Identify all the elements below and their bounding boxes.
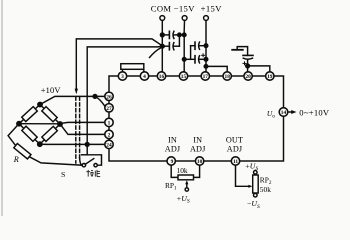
svg-text:4: 4 bbox=[143, 74, 146, 80]
pin 10 bbox=[195, 157, 203, 165]
pin 20 bbox=[244, 72, 252, 80]
pin 15 bbox=[179, 72, 187, 80]
pin 1 bbox=[105, 118, 113, 126]
svg-text:11: 11 bbox=[233, 159, 238, 165]
strain gauge body bottom-left bbox=[22, 126, 37, 141]
pin 14 bbox=[279, 108, 288, 117]
pin 26 bbox=[105, 92, 113, 100]
wire C5 top to ground bbox=[237, 47, 247, 56]
svg-text:COM: COM bbox=[151, 4, 172, 14]
capacitor C1 (COM to -15V, upper) bbox=[162, 34, 169, 36]
output arrow bbox=[291, 110, 296, 114]
wire C2 riser to C1 net bbox=[178, 35, 180, 46]
potentiometer RP2 body bbox=[253, 175, 259, 193]
bridge top node to excitation wire bbox=[40, 96, 105, 104]
ground COM bar bbox=[232, 49, 243, 51]
polarity + of C5 bbox=[243, 62, 246, 65]
svg-text:2: 2 bbox=[108, 132, 111, 138]
resistor R body bbox=[14, 143, 31, 158]
pin 2 bbox=[105, 130, 113, 138]
switch S right contact bbox=[94, 164, 97, 167]
RP1 wiper arrow bbox=[186, 183, 188, 188]
capacitor C5 (output filter at pins 20/19) bbox=[243, 54, 253, 56]
pins bbox=[105, 72, 288, 165]
potentiometer RP1 leads from pins 9 and 10 bbox=[171, 165, 178, 177]
pin 17 bbox=[201, 72, 209, 80]
resistor RG between pins 3 and 4 bbox=[122, 69, 124, 72]
svg-text:IN: IN bbox=[168, 136, 177, 145]
pin 19 bbox=[266, 72, 274, 80]
RP2 bottom terminal bbox=[254, 193, 258, 197]
capacitor C3 (-15V to +15V, upper) bbox=[191, 45, 195, 47]
svg-text:27: 27 bbox=[106, 106, 112, 112]
RP2 top terminal bbox=[254, 171, 258, 175]
bridge bottom wire to pin 24 bbox=[40, 143, 105, 145]
terminal -15V bbox=[182, 16, 187, 21]
RP2 wiper arrow head bbox=[248, 185, 252, 188]
svg-text:9: 9 bbox=[171, 159, 174, 165]
bridge arm bottom-right bbox=[40, 124, 60, 144]
junction dots on COM / -15V nets bbox=[160, 33, 164, 37]
shield outer wire to COM node bbox=[76, 39, 162, 89]
node bottom bbox=[38, 142, 42, 146]
polarity + of C4 bbox=[202, 54, 205, 57]
wire pin 14 output bbox=[288, 111, 292, 113]
pin 18 bbox=[223, 72, 231, 80]
svg-text:+15V: +15V bbox=[201, 4, 223, 14]
strain gauge body top-right bbox=[42, 107, 57, 122]
svg-text:26: 26 bbox=[106, 94, 112, 100]
svg-text:10k: 10k bbox=[177, 166, 188, 175]
pin 24 bbox=[105, 140, 113, 148]
wire -15V vertical to pin 15 bbox=[184, 20, 185, 71]
capacitor C2 (COM to -15V, lower) bbox=[162, 45, 169, 47]
wire +15V to pin 18 loop bbox=[206, 66, 227, 71]
svg-text:−15V: −15V bbox=[174, 4, 196, 14]
svg-text:14: 14 bbox=[281, 110, 287, 116]
svg-text:ADJ: ADJ bbox=[165, 145, 181, 154]
shield dashed line 1 bbox=[75, 97, 77, 163]
label calibration (CJK 校准) drawn strokes bbox=[86, 170, 100, 177]
svg-text:19: 19 bbox=[267, 74, 273, 80]
wire left node to resistor R bbox=[8, 124, 19, 146]
svg-text:15: 15 bbox=[181, 74, 187, 80]
svg-text:20: 20 bbox=[245, 74, 251, 80]
capacitor C4 (-15V to +15V, lower) bbox=[184, 58, 195, 60]
bridge arm top-right bbox=[40, 105, 60, 125]
COM return wire from pin24 net bbox=[87, 46, 162, 144]
wire pin24 net to switch right terminal bbox=[87, 144, 101, 165]
svg-text:50k: 50k bbox=[260, 185, 271, 194]
svg-text:17: 17 bbox=[203, 74, 209, 80]
svg-text:24: 24 bbox=[106, 142, 112, 148]
shield hook to switch bbox=[80, 158, 83, 166]
strain gauge body bottom-right bbox=[42, 126, 58, 141]
bridge arm bottom-left bbox=[19, 124, 40, 145]
pin 11 bbox=[231, 157, 239, 165]
bridge output wire to pin 1 bbox=[19, 122, 105, 123]
junction dot on excitation wire bbox=[93, 95, 97, 99]
node right bbox=[58, 122, 62, 126]
svg-text:18: 18 bbox=[225, 74, 231, 80]
pin 16 bbox=[157, 72, 165, 80]
node top bbox=[38, 102, 42, 106]
terminal COM bbox=[160, 16, 165, 21]
svg-text:S: S bbox=[61, 170, 65, 179]
bridge arm top-left bbox=[19, 105, 40, 124]
wire R to switch bbox=[29, 157, 82, 165]
labels IN ADJ / IN ADJ / OUT ADJ bbox=[165, 136, 243, 154]
wire COM vertical to pin 16 bbox=[161, 20, 164, 71]
wire C3 left drop bbox=[190, 46, 192, 60]
wire pin 11 to RP2 wiper bbox=[236, 165, 250, 186]
svg-text:1: 1 bbox=[108, 120, 111, 126]
switch S left contact bbox=[82, 164, 85, 167]
shield dashed line 2 bbox=[79, 97, 81, 158]
switch S lever bbox=[85, 159, 94, 165]
pin 4 bbox=[140, 72, 148, 80]
wire stub left of drop bbox=[82, 154, 88, 156]
pin 9 bbox=[167, 157, 175, 165]
wire to pin 27 bbox=[95, 96, 105, 106]
svg-text:IN: IN bbox=[193, 136, 202, 145]
wire C5 node to pins 20 and 19 bbox=[247, 66, 249, 72]
shield arrow head bbox=[75, 89, 78, 95]
svg-text:10: 10 bbox=[197, 159, 203, 165]
svg-text:R: R bbox=[13, 155, 19, 164]
svg-text:+10V: +10V bbox=[41, 86, 61, 95]
wire +15V vertical to pin 17 bbox=[204, 20, 207, 71]
IC body U1 (28-pin signal conditioner) bbox=[109, 76, 284, 161]
svg-text:0~+10V: 0~+10V bbox=[299, 108, 330, 118]
potentiometer RP1 body bbox=[178, 175, 194, 180]
svg-text:OUT: OUT bbox=[226, 136, 243, 145]
svg-text:ADJ: ADJ bbox=[190, 145, 206, 154]
svg-text:ADJ: ADJ bbox=[227, 145, 243, 154]
strain gauge body top-left bbox=[22, 107, 38, 122]
bridge output wire to pin 2 bbox=[60, 124, 105, 134]
arrow barb at COM node bbox=[150, 48, 161, 58]
svg-text:3: 3 bbox=[121, 74, 124, 80]
node left bbox=[17, 122, 21, 126]
pin 27 bbox=[105, 104, 113, 112]
terminal +15V bbox=[204, 16, 209, 21]
svg-text:16: 16 bbox=[159, 74, 165, 80]
pin 3 bbox=[118, 72, 126, 80]
junction dot on pin24 wire bbox=[85, 143, 89, 147]
